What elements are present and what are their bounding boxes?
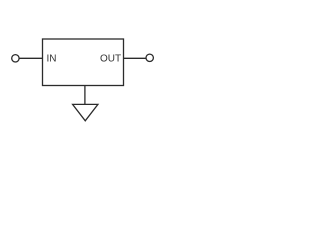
- terminal IN: [12, 55, 19, 62]
- wire: [19, 57, 42, 59]
- svg-text:IN: IN: [47, 54, 57, 65]
- wire: [84, 86, 86, 105]
- regulator block U1: [43, 39, 124, 86]
- svg-text:OUT: OUT: [100, 54, 121, 65]
- ground: [73, 104, 98, 120]
- wire: [124, 57, 147, 59]
- terminal OUT: [146, 54, 153, 61]
